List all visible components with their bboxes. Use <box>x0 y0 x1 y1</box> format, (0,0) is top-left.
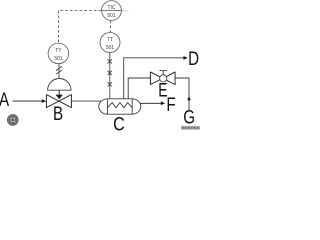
valve E ball circle <box>160 75 167 82</box>
heat exchanger C coil (zigzag) <box>107 103 132 108</box>
pneumatic signal TY to valve actuator (with double slash) <box>56 64 62 79</box>
svg-text:TT: TT <box>107 37 114 43</box>
capillary line TT to exchanger with x marks <box>108 53 112 99</box>
instrument TT 501 (temperature transmitter) <box>100 33 120 53</box>
pipe valve B to exchanger C <box>71 100 101 102</box>
pipe valve E to G with up arrow <box>175 78 191 110</box>
svg-text:501: 501 <box>106 45 114 51</box>
dashed signal TIC to TT <box>109 21 112 33</box>
svg-text:501: 501 <box>107 13 115 19</box>
svg-text:C: C <box>113 113 125 131</box>
valve E handle <box>159 71 167 75</box>
svg-text:TIC: TIC <box>108 4 116 10</box>
valve E body (bowtie with ball) <box>150 72 175 85</box>
svg-text:F: F <box>166 93 175 115</box>
pipe A inlet with arrow <box>13 99 47 103</box>
svg-text:B: B <box>53 102 63 124</box>
valve B stem arrow <box>56 90 63 99</box>
svg-text:501: 501 <box>54 56 62 62</box>
license badge bottom-left <box>7 114 19 126</box>
svg-text:TY: TY <box>55 48 62 54</box>
instrument TIC 501 (controller circle with panel line) <box>102 1 122 21</box>
dashed signal TIC to TY (corner at top-left) <box>59 11 102 44</box>
svg-text:A: A <box>0 88 10 110</box>
valve B actuator dome <box>48 79 71 91</box>
svg-text:D: D <box>188 48 199 70</box>
pipe exchanger top to valve E <box>128 78 150 99</box>
control valve B body (bowtie) <box>46 95 71 108</box>
pipe exchanger to F with arrow <box>140 101 165 105</box>
pipe exchanger top to D with arrow <box>124 56 188 99</box>
svg-text:G: G <box>183 106 195 128</box>
heat exchanger C shell (capsule with tube sheets) <box>99 99 141 114</box>
watermark bottom-right <box>181 126 200 130</box>
faint line stub right of TIC <box>122 10 129 12</box>
instrument TY 501 (transducer) <box>48 43 69 64</box>
